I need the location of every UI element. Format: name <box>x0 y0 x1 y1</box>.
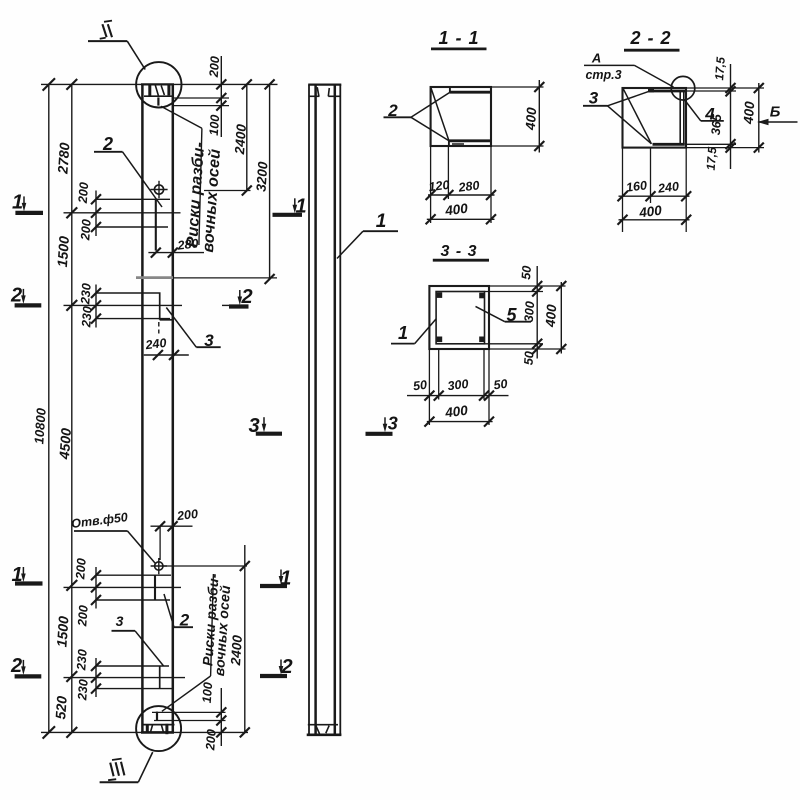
svg-text:50: 50 <box>412 378 428 394</box>
svg-text:1500: 1500 <box>53 615 71 647</box>
extension lines lower 230 cluster <box>64 666 186 689</box>
top datum line <box>41 83 278 85</box>
section 2-2 dimension 400 bottom <box>618 203 692 225</box>
svg-text:240: 240 <box>144 336 167 353</box>
svg-text:520: 520 <box>52 695 70 720</box>
axis scratch mark riska bottom <box>156 712 158 721</box>
section 2-2 dimensions 17,5/365/17,5 right <box>686 56 736 171</box>
section 2-2 dimensions 160/240 bottom <box>618 148 692 232</box>
dimension 230/230 lower left <box>74 649 101 702</box>
dimension 200/200 upper left <box>76 182 101 242</box>
svg-text:200: 200 <box>78 219 93 242</box>
section 2-2 channel plates items 3/4 <box>648 89 685 145</box>
section 3-3 dimension 400 right <box>543 281 567 354</box>
label II with leader <box>88 21 145 70</box>
svg-text:240: 240 <box>656 179 679 196</box>
svg-text:230: 230 <box>79 306 94 329</box>
dimension 200 top right <box>207 56 227 137</box>
svg-text:3: 3 <box>589 89 599 108</box>
svg-text:2: 2 <box>10 285 22 307</box>
svg-text:50: 50 <box>522 351 537 366</box>
svg-text:230: 230 <box>78 283 93 306</box>
svg-text:230: 230 <box>74 649 89 672</box>
svg-text:100: 100 <box>207 114 222 136</box>
svg-text:120: 120 <box>428 178 450 194</box>
side view bottom grooves <box>308 725 338 734</box>
section mark 1-1 right upper <box>273 213 303 217</box>
section 2-2 dimension 400 right <box>686 83 764 153</box>
svg-text:400: 400 <box>523 106 540 131</box>
svg-text:200: 200 <box>76 182 91 205</box>
note riski razbivochnykh osey lower with leader <box>162 573 233 712</box>
section mark 3-3 left <box>256 432 282 436</box>
svg-text:3: 3 <box>388 414 398 434</box>
dimension 240 below pocket <box>144 336 189 360</box>
label 4 leader section 2-2 <box>684 100 724 124</box>
label III with leader <box>100 752 153 782</box>
svg-text:стр.3: стр.3 <box>585 68 621 82</box>
svg-text:2400: 2400 <box>232 123 249 155</box>
section 1-1 concrete outline <box>431 87 491 146</box>
section 2-2 title <box>624 28 680 50</box>
svg-text:2780: 2780 <box>54 142 72 175</box>
svg-text:1: 1 <box>12 192 23 214</box>
embedded bar item 2 upper <box>155 199 157 251</box>
side view top grooves <box>309 87 341 96</box>
embedded bar item 2 lower <box>154 575 156 600</box>
section mark 2-2 left lower <box>15 674 42 678</box>
svg-text:100: 100 <box>200 682 215 704</box>
detail circle A on corner <box>671 76 695 100</box>
view arrow B <box>757 104 798 126</box>
svg-text:400: 400 <box>443 403 469 421</box>
section 3-3 title <box>433 243 489 260</box>
svg-text:3 - 3: 3 - 3 <box>440 243 477 260</box>
layout-axis trace line mid upper <box>136 276 277 279</box>
svg-text:17,5: 17,5 <box>712 56 728 81</box>
extension lines upper cluster <box>64 199 181 227</box>
extension lines top right <box>173 98 229 106</box>
svg-text:17,5: 17,5 <box>704 146 720 171</box>
bottom end grooves detail III zone <box>142 724 175 734</box>
label 2 fork leader section 1-1 <box>384 92 450 140</box>
dimension chain 2780/1500/4500/1500/520 <box>52 79 77 738</box>
svg-text:2400: 2400 <box>228 634 245 666</box>
section 1-1 dimension 400 bottom <box>426 201 496 225</box>
svg-text:1500: 1500 <box>54 235 72 267</box>
svg-text:2: 2 <box>10 655 22 677</box>
side view column outline <box>307 85 342 735</box>
svg-text:365: 365 <box>709 113 724 136</box>
section 2-2 diagonal to plate <box>623 89 651 144</box>
svg-text:2 - 2: 2 - 2 <box>629 28 671 48</box>
extension lines 230 cluster upper <box>64 293 232 319</box>
svg-text:400: 400 <box>543 303 560 328</box>
note riski razbivochnykh osey upper with leader <box>161 106 224 253</box>
svg-text:200: 200 <box>75 605 90 628</box>
svg-text:300: 300 <box>522 301 537 323</box>
svg-text:3: 3 <box>116 613 124 629</box>
dimension 200/200 lower left <box>73 558 101 628</box>
svg-text:50: 50 <box>519 265 534 280</box>
note hole dia 50 with leader <box>70 510 155 563</box>
label 1 leader to side view <box>337 211 398 259</box>
svg-text:1: 1 <box>11 564 22 586</box>
section 3-3 dimension 400 bottom <box>424 403 494 427</box>
top end grooves detail II zone <box>144 85 173 96</box>
anchor pocket rectangle lower <box>159 666 161 689</box>
extension lines bottom right <box>152 712 226 720</box>
section 3-3 dimensions 50/300/50 right <box>485 265 566 365</box>
svg-text:2: 2 <box>280 656 292 678</box>
section 3-3 concrete outline <box>429 286 489 349</box>
bottom datum line <box>41 731 248 733</box>
svg-text:3200: 3200 <box>253 161 270 192</box>
dimension 2400 upper <box>204 79 252 195</box>
dimension 200 above hole <box>151 507 199 560</box>
label 1 leader section 3-3 <box>391 319 436 344</box>
section mark 2-2 right lower <box>260 674 287 678</box>
dimension 2400 lower <box>228 545 250 737</box>
svg-text:400: 400 <box>637 203 663 221</box>
svg-text:1: 1 <box>295 196 306 218</box>
svg-text:2: 2 <box>240 286 252 308</box>
label 5 leader section 3-3 <box>476 305 532 325</box>
anchor pocket rectangle upper <box>160 293 173 320</box>
section 1-1 title <box>431 28 487 49</box>
section 1-1 dimension 400 right <box>491 80 544 153</box>
label 2 leader lower <box>164 594 193 630</box>
svg-text:1 - 1: 1 - 1 <box>438 28 479 48</box>
svg-text:280: 280 <box>457 178 480 195</box>
svg-text:3: 3 <box>248 415 259 437</box>
label 2 leader upper <box>94 134 162 207</box>
svg-text:1: 1 <box>376 211 387 232</box>
section mark 1-1 left upper <box>15 211 43 215</box>
svg-text:1: 1 <box>398 323 408 343</box>
hole target mark lower with axis lines <box>151 558 167 574</box>
section 1-1 diagonal to plate <box>431 88 449 141</box>
svg-text:200: 200 <box>175 507 198 524</box>
extension lines lower 200 cluster <box>64 575 182 600</box>
section 3-3 stirrup item 5 <box>436 292 484 344</box>
section 3-3 dimensions 50/300/50 bottom <box>407 349 509 425</box>
label 3 leader lower <box>112 613 164 666</box>
svg-text:200: 200 <box>73 558 88 581</box>
svg-text:4500: 4500 <box>56 427 74 460</box>
dimension 100/200 bottom right <box>200 682 227 752</box>
svg-text:50: 50 <box>493 377 509 393</box>
dimension 3200 upper <box>253 79 274 284</box>
hole target mark upper axis cross <box>150 181 167 198</box>
dimension 280 bar offset <box>148 236 204 257</box>
main elevation: column body outline <box>141 84 174 732</box>
section mark 3-3 right <box>366 432 393 436</box>
section 1-1 dimensions 120/280 bottom <box>426 146 496 223</box>
svg-text:400: 400 <box>443 201 469 219</box>
dimension 230/230 upper left <box>78 283 101 329</box>
note A str.3 with leader <box>584 51 674 88</box>
section mark 1-1 right lower <box>260 584 287 588</box>
dimension 10800 overall <box>31 78 55 738</box>
section mark 2-2 right upper <box>229 304 249 308</box>
detail circle III <box>136 706 181 751</box>
svg-text:300: 300 <box>447 377 469 393</box>
label 3 fork leader section 2-2 <box>583 89 651 144</box>
detail circle II <box>136 62 181 107</box>
dashed axis stub below pocket <box>158 322 160 334</box>
svg-text:1: 1 <box>280 568 291 590</box>
extension from hole to dim 2400 lower <box>163 565 247 567</box>
label 3 leader upper <box>166 308 220 351</box>
svg-text:Б: Б <box>770 104 781 121</box>
svg-text:230: 230 <box>75 679 90 702</box>
section mark 2-2 left upper <box>15 303 42 307</box>
axis scratch mark riska top <box>157 97 159 105</box>
svg-text:200: 200 <box>207 56 222 79</box>
svg-text:А: А <box>591 51 601 66</box>
section 2-2 concrete outline <box>623 88 687 148</box>
section 3-3 corner rebars <box>437 292 485 342</box>
svg-text:10800: 10800 <box>31 407 49 445</box>
section 1-1 embedded plates item 2 <box>449 88 491 146</box>
svg-text:400: 400 <box>741 100 758 125</box>
svg-text:160: 160 <box>625 178 647 194</box>
section mark 1-1 left lower <box>15 581 43 585</box>
